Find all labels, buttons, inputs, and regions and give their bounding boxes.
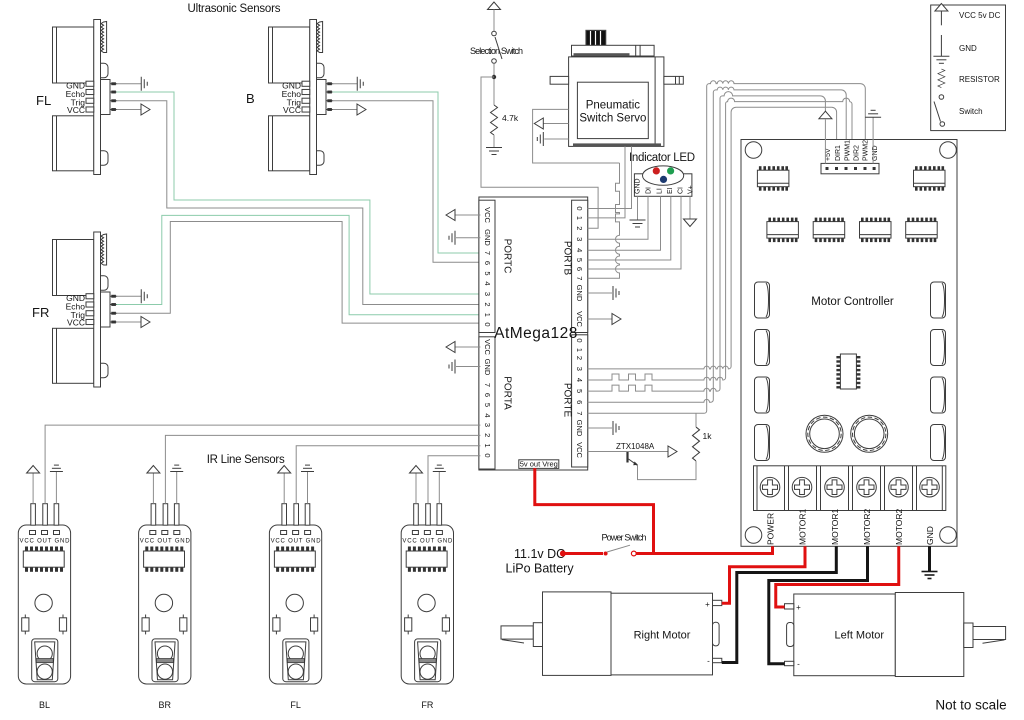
svg-text:5: 5 — [483, 271, 492, 275]
svg-text:0: 0 — [483, 453, 492, 457]
svg-text:VCC: VCC — [483, 207, 492, 223]
svg-text:Switch: Switch — [959, 107, 983, 116]
svg-text:3: 3 — [483, 423, 492, 427]
svg-text:4: 4 — [575, 248, 584, 252]
svg-text:IR Line Sensors: IR Line Sensors — [207, 454, 285, 466]
svg-text:FR: FR — [32, 305, 49, 320]
svg-text:0: 0 — [575, 338, 584, 342]
svg-text:AtMega128: AtMega128 — [494, 325, 578, 342]
svg-text:GND: GND — [483, 229, 492, 246]
svg-text:3: 3 — [575, 367, 584, 371]
svg-text:3: 3 — [575, 237, 584, 241]
svg-text:7: 7 — [483, 251, 492, 255]
svg-text:GND: GND — [925, 526, 935, 545]
svg-text:CI: CI — [678, 187, 685, 194]
svg-text:GND: GND — [575, 285, 584, 302]
svg-text:2: 2 — [483, 302, 492, 306]
svg-text:MOTOR2: MOTOR2 — [894, 509, 904, 545]
svg-text:0: 0 — [483, 322, 492, 326]
svg-text:5: 5 — [575, 258, 584, 262]
svg-text:MOTOR2: MOTOR2 — [862, 509, 872, 545]
svg-text:1: 1 — [483, 313, 492, 317]
svg-text:Right Motor: Right Motor — [634, 630, 691, 642]
svg-text:1k: 1k — [703, 431, 713, 441]
svg-text:VCC: VCC — [575, 442, 584, 458]
svg-text:GND: GND — [483, 359, 492, 376]
svg-text:Indicator LED: Indicator LED — [629, 152, 695, 164]
svg-text:2: 2 — [575, 356, 584, 360]
svg-text:4.7k: 4.7k — [502, 113, 519, 123]
svg-text:FL: FL — [290, 700, 301, 710]
svg-text:Pneumatic: Pneumatic — [586, 100, 641, 112]
svg-text:POWER: POWER — [766, 513, 776, 545]
svg-text:5: 5 — [483, 403, 492, 407]
svg-text:V+: V+ — [688, 185, 695, 194]
svg-text:FL: FL — [36, 93, 51, 108]
svg-text:4: 4 — [483, 281, 492, 285]
svg-text:2: 2 — [483, 433, 492, 437]
svg-text:0: 0 — [575, 206, 584, 210]
svg-text:VCC: VCC — [575, 311, 584, 327]
svg-text:MOTOR1: MOTOR1 — [830, 509, 840, 545]
svg-text:6: 6 — [575, 267, 584, 271]
svg-text:Selection Switch: Selection Switch — [470, 46, 523, 56]
svg-text:PWM2: PWM2 — [863, 140, 870, 161]
svg-text:LiPo Battery: LiPo Battery — [506, 562, 575, 576]
svg-text:B: B — [246, 91, 255, 106]
svg-text:2: 2 — [575, 226, 584, 230]
svg-text:4: 4 — [575, 378, 584, 382]
svg-text:5v out Vreg: 5v out Vreg — [520, 460, 558, 469]
svg-text:6: 6 — [483, 393, 492, 397]
svg-text:-: - — [707, 657, 710, 666]
svg-text:7: 7 — [575, 411, 584, 415]
svg-text:GND: GND — [635, 178, 642, 194]
svg-text:GND: GND — [575, 420, 584, 437]
svg-text:GND: GND — [959, 44, 977, 53]
svg-text:VCC: VCC — [483, 339, 492, 355]
svg-text:BL: BL — [39, 700, 50, 710]
svg-text:6: 6 — [483, 261, 492, 265]
svg-text:1: 1 — [483, 444, 492, 448]
svg-text:PORTE: PORTE — [562, 383, 573, 418]
svg-text:VCC 5v DC: VCC 5v DC — [959, 11, 1001, 20]
svg-text:DIR2: DIR2 — [854, 145, 861, 161]
svg-text:1: 1 — [575, 348, 584, 352]
svg-text:5: 5 — [575, 389, 584, 393]
svg-text:EI: EI — [667, 187, 674, 194]
svg-text:Motor Controller: Motor Controller — [811, 296, 894, 308]
svg-text:ZTX1048A: ZTX1048A — [616, 442, 655, 451]
svg-text:1: 1 — [575, 216, 584, 220]
svg-text:LI: LI — [657, 188, 664, 194]
svg-text:Switch Servo: Switch Servo — [579, 113, 646, 125]
svg-text:RESISTOR: RESISTOR — [959, 75, 1000, 84]
svg-text:Power Switch: Power Switch — [602, 533, 647, 543]
svg-text:6: 6 — [575, 400, 584, 404]
svg-text:+: + — [705, 600, 710, 609]
svg-text:3: 3 — [483, 292, 492, 296]
svg-text:PORTB: PORTB — [562, 241, 573, 276]
svg-text:FR: FR — [421, 700, 433, 710]
svg-text:4: 4 — [483, 413, 492, 417]
svg-text:PORTC: PORTC — [502, 239, 513, 274]
svg-text:PWM1: PWM1 — [844, 140, 851, 161]
svg-text:11.1v DC: 11.1v DC — [514, 547, 565, 561]
svg-text:DI: DI — [646, 187, 653, 194]
svg-text:+5V: +5V — [825, 148, 832, 161]
svg-text:PORTA: PORTA — [502, 376, 513, 410]
svg-text:Not to scale: Not to scale — [935, 698, 1006, 713]
svg-text:BR: BR — [159, 700, 172, 710]
svg-text:-: - — [797, 660, 800, 669]
svg-text:7: 7 — [483, 383, 492, 387]
svg-text:7: 7 — [575, 276, 584, 280]
svg-text:Ultrasonic Sensors: Ultrasonic Sensors — [188, 3, 281, 15]
svg-text:Left Motor: Left Motor — [835, 630, 885, 642]
svg-text:DIR1: DIR1 — [835, 145, 842, 161]
svg-text:+: + — [796, 603, 801, 612]
svg-text:MOTOR1: MOTOR1 — [798, 509, 808, 545]
